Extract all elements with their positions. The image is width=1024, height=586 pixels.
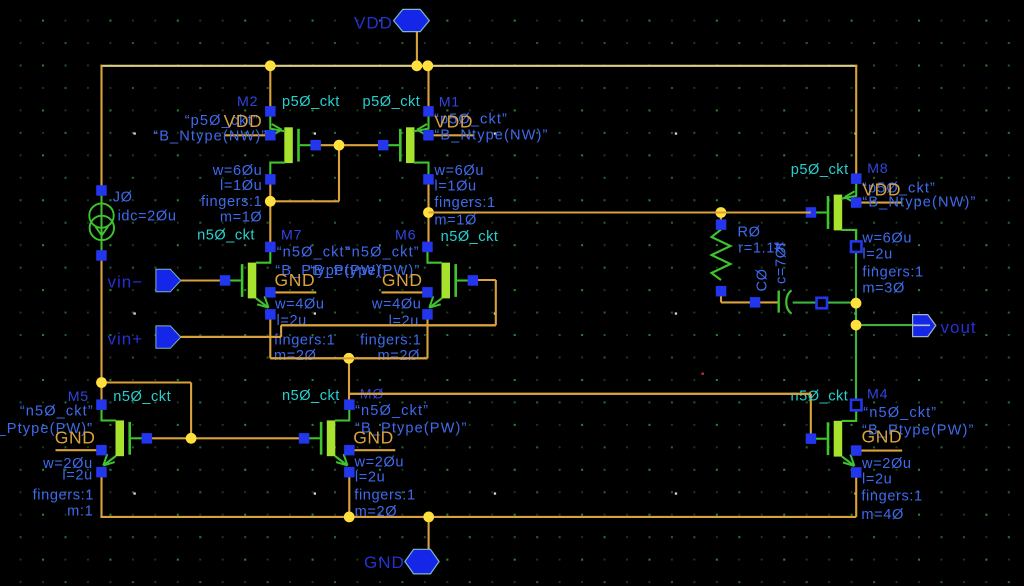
value fingers M0 — [354, 488, 415, 504]
node rail-M0 — [344, 512, 355, 523]
current source J0 — [89, 194, 114, 252]
transistor M7 — [230, 252, 316, 308]
wire M5 source to ground rail — [100, 472, 102, 518]
svg-text:n5Ø_ckt: n5Ø_ckt — [791, 389, 849, 405]
M0 source pin — [344, 467, 355, 478]
pin vin+ — [156, 326, 181, 348]
wire M2 source up — [269, 65, 271, 112]
svg-text:m=2Ø: m=2Ø — [274, 348, 317, 364]
wire node to M5 drain — [100, 383, 102, 406]
M1 drain pin — [423, 174, 434, 185]
svg-text:“n5Ø_ckt”: “n5Ø_ckt” — [277, 245, 351, 261]
cell n50_ckt M6 — [441, 229, 499, 245]
svg-text:GND: GND — [55, 428, 96, 448]
svg-text:fingers:1: fingers:1 — [274, 332, 335, 348]
wire left branch to J0 — [100, 65, 102, 191]
value w=40u M6 — [371, 297, 422, 313]
quote B_Ptype M7 — [275, 263, 387, 279]
value l=2u M8 — [862, 247, 892, 263]
quote n50_ckt M0 — [355, 403, 429, 419]
wire GND bottom rail — [100, 516, 856, 518]
M6 source pin — [422, 309, 433, 320]
wire tail node to M0 drain — [348, 358, 350, 405]
wire C0 to vout net — [793, 302, 856, 304]
svg-text:w=2Øu: w=2Øu — [861, 456, 912, 472]
M7 bulk pin — [265, 287, 276, 298]
wire M1 source up — [427, 65, 429, 112]
quote p50_ckt M2 — [185, 113, 259, 129]
value m=20 M7 — [274, 348, 317, 364]
transistor M5 — [56, 409, 142, 465]
R0 top pin — [716, 219, 727, 230]
svg-text:n5Ø_ckt: n5Ø_ckt — [113, 389, 171, 405]
wire node to R0 — [720, 213, 722, 226]
pin vout — [913, 315, 936, 337]
svg-text:“B_Ntype(NW)”: “B_Ntype(NW)” — [153, 129, 267, 145]
M1 bulk pin — [423, 130, 434, 141]
value w=60u M8 — [861, 231, 912, 247]
svg-text:n5Ø_ckt: n5Ø_ckt — [282, 388, 340, 404]
svg-text:p5Ø_ckt: p5Ø_ckt — [791, 162, 849, 178]
svg-text:c=7Øf: c=7Øf — [774, 241, 790, 284]
value w=20u M5 — [42, 456, 93, 472]
label M0 — [360, 387, 384, 403]
wire M4 source to rail — [855, 472, 857, 517]
bulk VDD M2 — [224, 111, 263, 131]
value w=40u M7 — [274, 297, 325, 313]
svg-text:JØ: JØ — [113, 189, 133, 205]
value m=40 M4 — [861, 507, 904, 523]
transistor M1 — [388, 116, 474, 175]
M5 bulk pin — [96, 445, 107, 456]
svg-text:l=2u: l=2u — [62, 468, 92, 484]
svg-text:m=1Ø: m=1Ø — [220, 210, 263, 226]
wire M7 source down — [269, 314, 271, 359]
label GND — [364, 553, 405, 572]
value fingers M8 — [862, 265, 923, 281]
svg-text:vout: vout — [941, 318, 977, 337]
svg-text:l=1Øu: l=1Øu — [220, 178, 262, 194]
svg-text:fingers:1: fingers:1 — [354, 488, 415, 504]
node first stage output — [423, 207, 434, 218]
svg-text:w=6Øu: w=6Øu — [212, 163, 263, 179]
M4 source pin — [851, 467, 862, 478]
svg-text:w=2Øu: w=2Øu — [354, 455, 405, 471]
value l=2u M0 — [355, 470, 385, 486]
bulk GND M4 — [862, 427, 903, 447]
svg-text:M7: M7 — [281, 228, 302, 244]
wire first stage out to M8 gate — [429, 211, 811, 213]
wire M2 drain to node — [269, 179, 271, 202]
node M5 gate — [186, 433, 197, 444]
M2 source pin — [265, 106, 276, 117]
cell p50_ckt M8 — [791, 162, 849, 178]
wire tail to M4 gate run — [349, 393, 811, 395]
transistor M8 — [816, 184, 902, 243]
value l=10u M1 — [434, 179, 476, 195]
label R0 — [738, 225, 761, 241]
wire vout stub — [856, 324, 914, 326]
value fingers M7 — [274, 332, 335, 348]
value l=2u M6 — [389, 314, 419, 330]
label C0 — [755, 268, 771, 291]
wire overlay vin+ run — [181, 325, 496, 337]
value w=60u M2 — [212, 163, 263, 179]
M1 source pin — [423, 106, 434, 117]
transistor M2 — [224, 116, 310, 175]
M1 gate pin — [378, 140, 389, 151]
quote n50_ckt M5 — [20, 404, 94, 420]
value l=10u M2 — [220, 178, 262, 194]
R0 bottom pin — [716, 286, 727, 297]
svg-text:m=2Ø: m=2Ø — [377, 348, 420, 364]
svg-text:m:1: m:1 — [67, 504, 93, 520]
node diff tail — [343, 353, 354, 364]
svg-text:“B_Ntype(NW)”: “B_Ntype(NW)” — [862, 195, 976, 211]
transistor M6 — [382, 252, 468, 308]
quote p50_ckt M8 — [862, 181, 936, 197]
wire M2 diode link horizontal — [270, 200, 339, 202]
wire VDD hex stem — [416, 31, 418, 66]
svg-text:M6: M6 — [395, 228, 416, 244]
quote n50_ckt M4 — [863, 405, 937, 421]
bulk VDD M1 — [434, 112, 473, 132]
node rail-M1 — [422, 60, 433, 71]
quote B_Ntype M2 — [153, 129, 267, 145]
svg-text:p5Ø_ckt: p5Ø_ckt — [363, 94, 421, 110]
quote B_Ptype M4 — [862, 423, 974, 439]
svg-text:n5Ø_ckt: n5Ø_ckt — [441, 229, 499, 245]
M0 gate pin — [299, 433, 310, 444]
svg-text:l=2u: l=2u — [862, 472, 892, 488]
value w=60u M1 — [433, 163, 484, 179]
label M7 — [281, 228, 302, 244]
M7 gate pin — [220, 275, 231, 286]
node M2 drain — [265, 196, 276, 207]
pin vin- — [156, 269, 181, 292]
svg-text:GND: GND — [364, 553, 405, 572]
cell n50_ckt M7 — [197, 228, 255, 244]
value fingers M4 — [861, 489, 922, 505]
label vin- — [108, 273, 144, 292]
C0 left pin — [750, 297, 761, 308]
svg-text:m=2Ø: m=2Ø — [355, 504, 398, 520]
wire vin+ horizontal — [181, 336, 282, 338]
wire M1 drain to M6 drain — [427, 179, 429, 248]
wire M0 source to rail — [348, 472, 350, 517]
svg-text:GND: GND — [275, 270, 316, 290]
transistor M0 — [309, 409, 395, 465]
wire vin+ jog up — [280, 325, 282, 337]
svg-text:M4: M4 — [867, 387, 888, 403]
wire M8 source from rail — [855, 65, 857, 180]
wire M2 diode link vertical — [338, 145, 340, 201]
value l=2u M7 — [277, 313, 307, 329]
node R0 tap — [716, 207, 727, 218]
M8 bulk pin — [851, 197, 862, 208]
value m:1 M5 — [67, 504, 93, 520]
GND supply symbol — [405, 549, 439, 574]
node rail-GND stem — [423, 512, 434, 523]
wire M2-M1 gates — [316, 144, 385, 146]
value r=1.1K — [738, 241, 785, 257]
M0 bulk pin — [344, 445, 355, 456]
wire node to M7 drain — [269, 201, 271, 247]
value m=20 M0 — [355, 504, 398, 520]
M6 drain pin — [422, 242, 433, 253]
svg-text:l=1Øu: l=1Øu — [434, 179, 476, 195]
wire vin+ to M6 gate run — [281, 324, 496, 326]
svg-text:l=2u: l=2u — [277, 313, 307, 329]
M6 bulk pin — [422, 287, 433, 298]
value idc=20u — [118, 209, 177, 225]
svg-text:“n5Ø_ckt”: “n5Ø_ckt” — [863, 405, 937, 421]
wire mirror gate M5-M0 — [147, 437, 304, 439]
M2 bulk pin — [265, 130, 276, 141]
wire M6 gate riser — [495, 280, 497, 325]
value m=10 M1 — [434, 213, 477, 229]
wire diff pair tail — [270, 357, 427, 359]
value fingers M1 — [434, 195, 495, 211]
label M8 — [867, 161, 888, 177]
svg-text:fingers:1: fingers:1 — [862, 265, 923, 281]
svg-text:n5Ø_ckt: n5Ø_ckt — [197, 228, 255, 244]
bulk GND M7 — [275, 270, 316, 290]
label M2 — [237, 94, 258, 110]
svg-text:m=4Ø: m=4Ø — [861, 507, 904, 523]
resistor R0 — [712, 230, 731, 281]
node J0-M5 — [96, 377, 107, 388]
bulk VDD M8 — [862, 180, 901, 200]
label J0 — [113, 189, 133, 205]
svg-text:fingers:1: fingers:1 — [861, 489, 922, 505]
svg-text:“n5Ø_ckt”: “n5Ø_ckt” — [20, 404, 94, 420]
C0 right pin — [817, 298, 828, 309]
node C0-vout — [851, 298, 862, 309]
quote B_Ptype M5 — [0, 421, 93, 437]
M8 source pin — [851, 173, 862, 184]
svg-text:l=2u: l=2u — [389, 314, 419, 330]
wire J0 to M5 drain node — [100, 255, 102, 383]
M7 source pin — [265, 309, 276, 320]
wire R0 to C0 — [721, 291, 778, 302]
bulk GND M6 — [382, 270, 423, 290]
VDD supply symbol — [394, 9, 430, 31]
svg-text:GND: GND — [353, 428, 394, 448]
M4 drain pin — [851, 400, 862, 411]
label vout — [941, 318, 977, 337]
M2 gate pin — [310, 140, 321, 151]
wire M6 gate stub — [473, 279, 496, 281]
value l=2u M4 — [862, 472, 892, 488]
svg-text:GND: GND — [382, 270, 423, 290]
value fingers M5 — [33, 488, 94, 504]
quote n50_ckt M6 — [346, 245, 420, 261]
wire VDD top rail — [100, 65, 857, 67]
M5 gate pin — [142, 433, 153, 444]
label M1 — [439, 95, 460, 111]
value l=2u M5 — [62, 468, 92, 484]
value w=20u M4 — [861, 456, 912, 472]
node M2 gate-drain — [334, 140, 345, 151]
M6 gate pin — [468, 275, 479, 286]
svg-text:fingers:1: fingers:1 — [33, 488, 94, 504]
svg-text:“B_Ntype(NW)”: “B_Ntype(NW)” — [434, 128, 548, 144]
bulk GND M0 — [353, 428, 394, 448]
wire vout net vertical — [855, 231, 857, 406]
cell n50_ckt M4 — [791, 389, 849, 405]
label vin+ — [108, 330, 144, 349]
cell n50_ckt M0 — [282, 388, 340, 404]
transistor M4 — [816, 410, 902, 466]
white grid marks — [134, 132, 857, 494]
svg-text:M2: M2 — [237, 94, 258, 110]
svg-text:m=1Ø: m=1Ø — [434, 213, 477, 229]
M4 bulk pin — [851, 445, 862, 456]
cell p50_ckt M2 — [282, 94, 340, 110]
quote p50_ckt M1 — [434, 112, 508, 128]
wire M4 gate riser — [810, 394, 812, 439]
node vout tap — [851, 320, 862, 331]
M5 source pin — [96, 467, 107, 478]
cell p50_ckt M1 — [363, 94, 421, 110]
wire M6 source down — [426, 314, 428, 359]
wire overlay tail — [270, 357, 427, 359]
M4 gate pin — [806, 433, 817, 444]
wire overlay stage2 — [429, 211, 811, 213]
M7 drain pin — [265, 242, 276, 253]
svg-text:idc=2Øu: idc=2Øu — [118, 209, 177, 225]
quote B_Ptype M6 — [308, 263, 420, 279]
quote B_Ntype M8 — [862, 195, 976, 211]
svg-text:fingers:1: fingers:1 — [360, 332, 421, 348]
M8 drain pin — [851, 241, 862, 252]
value m=20 M6 — [377, 348, 420, 364]
svg-text:vin+: vin+ — [108, 330, 144, 349]
svg-text:l=2u: l=2u — [862, 247, 892, 263]
svg-text:fingers:1: fingers:1 — [201, 194, 262, 210]
svg-text:“n5Ø_ckt”: “n5Ø_ckt” — [355, 403, 429, 419]
wire M5 diode jog horizontal — [102, 381, 192, 383]
value fingers M6 — [360, 332, 421, 348]
svg-text:VDD: VDD — [354, 14, 393, 33]
wire vin- to M7 gate — [181, 279, 226, 281]
value m=30 M8 — [862, 281, 905, 297]
M0 drain pin — [344, 399, 355, 410]
quote B_Ntype M1 — [434, 128, 548, 144]
M5 drain pin — [96, 399, 107, 410]
label M4 — [867, 387, 888, 403]
svg-text:m=3Ø: m=3Ø — [862, 281, 905, 297]
red marker dot — [702, 373, 704, 375]
bulk GND M5 — [55, 428, 96, 448]
M2 drain pin — [265, 174, 276, 185]
node rail-VDD stem — [411, 60, 422, 71]
svg-text:fingers:1: fingers:1 — [434, 195, 495, 211]
capacitor C0 — [779, 290, 792, 313]
cell n50_ckt M5 — [113, 389, 171, 405]
value m=10 M2 — [220, 210, 263, 226]
svg-text:w=6Øu: w=6Øu — [861, 231, 912, 247]
node rail-M2 — [265, 60, 276, 71]
wire overlay M4 gate run — [349, 393, 811, 395]
svg-text:l=2u: l=2u — [355, 470, 385, 486]
svg-text:w=4Øu: w=4Øu — [371, 297, 422, 313]
svg-text:p5Ø_ckt: p5Ø_ckt — [282, 94, 340, 110]
svg-text:vin−: vin− — [108, 273, 144, 292]
svg-text:w=6Øu: w=6Øu — [433, 163, 484, 179]
label M6 — [395, 228, 416, 244]
value fingers M2 — [201, 194, 262, 210]
svg-text:w=4Øu: w=4Øu — [274, 297, 325, 313]
M8 gate pin — [806, 207, 817, 218]
quote B_Ptype M0 — [355, 421, 467, 437]
svg-text:RØ: RØ — [738, 225, 761, 241]
wire GND stem — [428, 517, 430, 550]
value w=20u M0 — [354, 455, 405, 471]
svg-text:M8: M8 — [867, 161, 888, 177]
svg-text:M1: M1 — [439, 95, 460, 111]
svg-text:“n5Ø_ckt”: “n5Ø_ckt” — [346, 245, 420, 261]
wire M5 diode jog vertical — [190, 383, 192, 439]
quote n50_ckt M7 — [277, 245, 351, 261]
value c=70f — [774, 241, 790, 284]
J0 top pin — [96, 185, 107, 196]
label VDD — [354, 14, 393, 33]
svg-text:CØ: CØ — [755, 268, 771, 291]
label M5 — [68, 389, 89, 405]
J0 bottom pin — [96, 250, 107, 261]
svg-text:GND: GND — [862, 427, 903, 447]
